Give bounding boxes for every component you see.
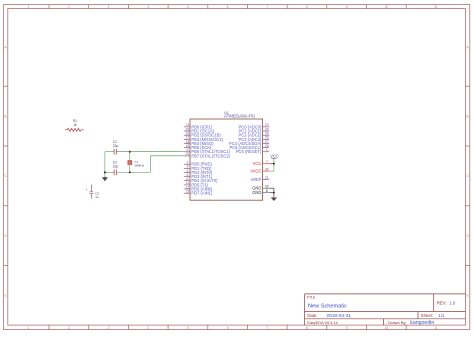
svg-text:8: 8 [266,189,268,193]
svg-text:E: E [5,294,7,298]
svg-text:16MHz: 16MHz [134,163,144,167]
ground left [102,177,108,182]
svg-text:2: 2 [68,326,70,330]
svg-text:5: 5 [187,326,189,330]
U1 pin 8 GND [252,189,269,195]
U1 pin 6 PD4 [184,177,218,183]
svg-text:22p: 22p [113,164,119,168]
U1 pin 28 PC5 [229,144,269,150]
wire AVCC to VCC net [269,164,274,171]
U1 pin 7 VCC [253,160,270,166]
crystal Y1 16MHz [127,152,144,173]
ground right [271,193,277,201]
svg-text:11: 11 [434,326,438,330]
U1 pin 24 PC1 [239,127,270,133]
svg-text:1k: 1k [73,123,77,127]
U1 pin 14 PB0 [184,123,213,129]
svg-text:1.0: 1.0 [449,301,456,306]
U1 pin 2 PD0 [184,161,213,167]
svg-text:7: 7 [266,160,268,164]
svg-text:10: 10 [186,152,190,156]
U1 pin 18 PB4 [184,140,214,146]
U1 pin 22 GND [252,185,269,191]
svg-text:6: 6 [227,326,229,330]
svg-text:2018-03-31: 2018-03-31 [326,313,351,319]
wire left vertical to ground [104,152,106,177]
capacitor C2 22p [113,160,119,175]
U1 pin 1 PC6 [236,148,269,154]
junction GND [273,192,275,194]
svg-text:8: 8 [306,5,308,9]
svg-text:New Schematic: New Schematic [308,303,347,309]
U1 pin 13 PD7 [184,190,213,196]
svg-text:21: 21 [265,176,269,180]
svg-text:Drawn By:: Drawn By: [388,320,406,325]
svg-text:TITLE:: TITLE: [307,296,317,300]
U1 pin 19 PB5 [184,144,212,150]
svg-text:VCC: VCC [270,153,279,158]
U1 pin 27 PC4 [229,140,269,146]
U1 pin 25 PC2 [239,132,270,138]
svg-text:1/1: 1/1 [438,313,445,318]
svg-text:9: 9 [346,5,348,9]
U1 pin 11 PD5 [184,181,209,187]
svg-text:13: 13 [186,190,190,194]
resistor R1 1k [65,119,84,131]
wire C1 to PB6 [105,151,184,153]
svg-text:2: 2 [68,5,70,9]
U1 pin 17 PB3 [184,136,224,142]
svg-text:AREF: AREF [250,177,261,182]
svg-text:4: 4 [147,326,149,330]
svg-text:3: 3 [108,326,110,330]
U1 pin 3 PD1 [184,165,212,171]
svg-text:PB7 (XTAL2/TOSC2): PB7 (XTAL2/TOSC2) [191,153,230,158]
svg-text:Sheet:: Sheet: [421,313,433,318]
svg-text:GND: GND [252,190,261,195]
U1 pin 5 PD3 [184,173,213,179]
wire VCC pin7 to flag [269,163,274,165]
IC U1 ATMEGA8A-PU [190,111,263,200]
svg-text:VCC: VCC [253,161,262,166]
svg-text:6: 6 [227,5,229,9]
svg-text:ATMEGA8A-PU: ATMEGA8A-PU [224,114,255,119]
junction VCC [273,163,275,165]
U1 pin 12 PD6 [184,185,213,191]
svg-text:EasyEDA V5.3.14: EasyEDA V5.3.14 [307,321,337,325]
U1 pin 16 PB2 [184,132,222,138]
U1 pin 9 PB6 [184,148,231,154]
U1 pin 10 PB7 [184,152,231,158]
svg-text:11: 11 [434,5,438,9]
svg-text:1: 1 [28,5,30,9]
junction Y1 top [129,151,131,153]
wire GND pin8 [269,192,274,194]
svg-text:AVCC: AVCC [250,169,261,174]
svg-text:20: 20 [265,167,269,171]
U1 pin 23 PC0 [239,123,270,129]
svg-text:B: B [5,114,7,118]
svg-text:B: B [467,114,469,118]
capacitor C3 1u polarized [86,185,100,199]
U1 pin 21 AREF [250,176,269,182]
svg-text:3: 3 [108,5,110,9]
svg-text:PC6 (RESET): PC6 (RESET) [236,149,262,154]
svg-text:E: E [467,294,469,298]
svg-text:Date:: Date: [307,313,317,318]
U1 pin 20 AVCC [250,167,269,173]
wire GND pin22 [269,188,274,193]
junction left gnd [104,171,106,173]
svg-text:8: 8 [306,326,308,330]
wire C2 to PB7 [105,156,184,173]
VCC power flag [270,153,279,163]
svg-text:22: 22 [265,185,269,189]
svg-text:7: 7 [266,5,268,9]
U1 pin 15 PB1 [184,127,215,133]
U1 pin 4 PD2 [184,169,213,175]
svg-text:REV:: REV: [437,301,447,306]
svg-text:10: 10 [385,5,389,9]
svg-text:1: 1 [266,148,268,152]
svg-text:9: 9 [346,326,348,330]
junction Y1 bottom [129,171,131,173]
svg-text:22p: 22p [113,144,119,148]
U1 pin 26 PC3 [239,136,270,142]
svg-text:10: 10 [385,326,389,330]
svg-text:PD7 (AIN1): PD7 (AIN1) [191,191,213,196]
svg-text:1u: 1u [95,195,99,199]
svg-text:4: 4 [147,5,149,9]
svg-text:1: 1 [28,326,30,330]
svg-text:+: + [86,188,88,192]
capacitor C1 22p [113,140,119,155]
svg-text:5: 5 [187,5,189,9]
svg-text:kangoedin: kangoedin [410,320,434,326]
svg-text:7: 7 [266,326,268,330]
